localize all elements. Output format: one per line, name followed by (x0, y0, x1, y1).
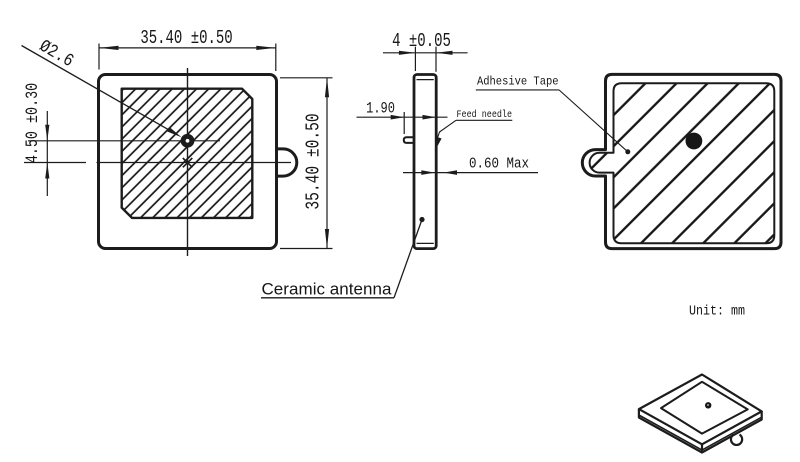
feed needle (protrusion) (404, 137, 415, 143)
3d tape edge line on wall (640, 416, 761, 451)
dimension 4 ±0.05 (side thickness) (383, 47, 468, 72)
3d side wall (639, 409, 762, 452)
3d top face (639, 375, 762, 445)
3d bottom vertex edge (701, 444, 703, 452)
adhesive tape hatched area with notch contour (590, 83, 775, 243)
back view outer square with notch bump (582, 74, 781, 248)
dimension 0.60 Max (tape thickness) (403, 172, 538, 174)
diameter leader Ø2.6 (22, 46, 182, 138)
svg-text:Adhesive Tape: Adhesive Tape (477, 75, 559, 89)
3d feed dot (705, 402, 711, 408)
svg-text:Ceramic antenna: Ceramic antenna (262, 280, 393, 299)
hatched patch electrode (front) (122, 89, 253, 218)
inner top edge line (417, 79, 434, 81)
tab on right edge of front view (277, 149, 297, 176)
svg-text:Unit: mm: Unit: mm (689, 305, 745, 320)
3d patch (inner diamond) (661, 382, 748, 434)
svg-text:1.90: 1.90 (366, 101, 395, 118)
svg-text:Feed needle: Feed needle (457, 109, 513, 121)
svg-text:35.40 ±0.50: 35.40 ±0.50 (140, 28, 232, 50)
3d tab loop (731, 435, 742, 445)
horizontal center line (24, 162, 86, 164)
vertical center line (187, 68, 189, 256)
side view body outline (414, 75, 436, 249)
feed dot (back) (686, 133, 703, 150)
dimension 4.50 ±0.30 (left, feed offset) (46, 111, 48, 196)
dimension 35.40 ±0.50 (right, front height) (280, 78, 333, 249)
svg-text:0.60 Max: 0.60 Max (469, 157, 529, 173)
svg-text:4.50 ±0.30: 4.50 ±0.30 (22, 83, 42, 163)
horizontal feed line (28, 140, 220, 142)
feed point circle (183, 136, 192, 145)
center cross mark (183, 158, 193, 167)
svg-text:4 ±0.05: 4 ±0.05 (392, 31, 451, 53)
svg-text:35.40 ±0.50: 35.40 ±0.50 (304, 113, 325, 209)
inner bottom edge line (417, 242, 434, 244)
ceramic antenna outer square (front) (99, 75, 277, 249)
dimension 1.90 (needle offset) (357, 112, 448, 134)
dimension 35.40 ±0.50 (top, front width) (99, 44, 276, 72)
